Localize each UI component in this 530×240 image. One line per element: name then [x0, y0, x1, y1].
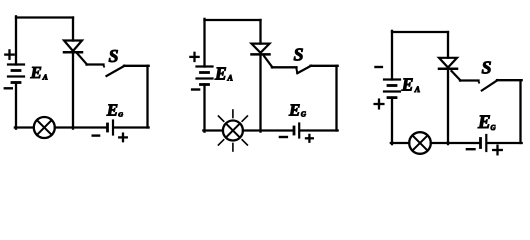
svg-text:S: S — [482, 58, 492, 78]
svg-text:G: G — [301, 111, 306, 119]
svg-text:A: A — [414, 85, 421, 94]
svg-text:A: A — [227, 74, 234, 83]
svg-text:A: A — [42, 73, 48, 82]
svg-text:E: E — [288, 101, 300, 120]
svg-text:G: G — [491, 124, 496, 132]
svg-text:G: G — [118, 112, 123, 119]
svg-text:E: E — [214, 63, 227, 83]
svg-text:E: E — [477, 112, 491, 133]
svg-text:E: E — [30, 63, 42, 82]
svg-text:S: S — [294, 45, 304, 65]
svg-text:E: E — [106, 100, 118, 119]
svg-text:S: S — [109, 46, 119, 66]
svg-text:E: E — [401, 74, 414, 94]
